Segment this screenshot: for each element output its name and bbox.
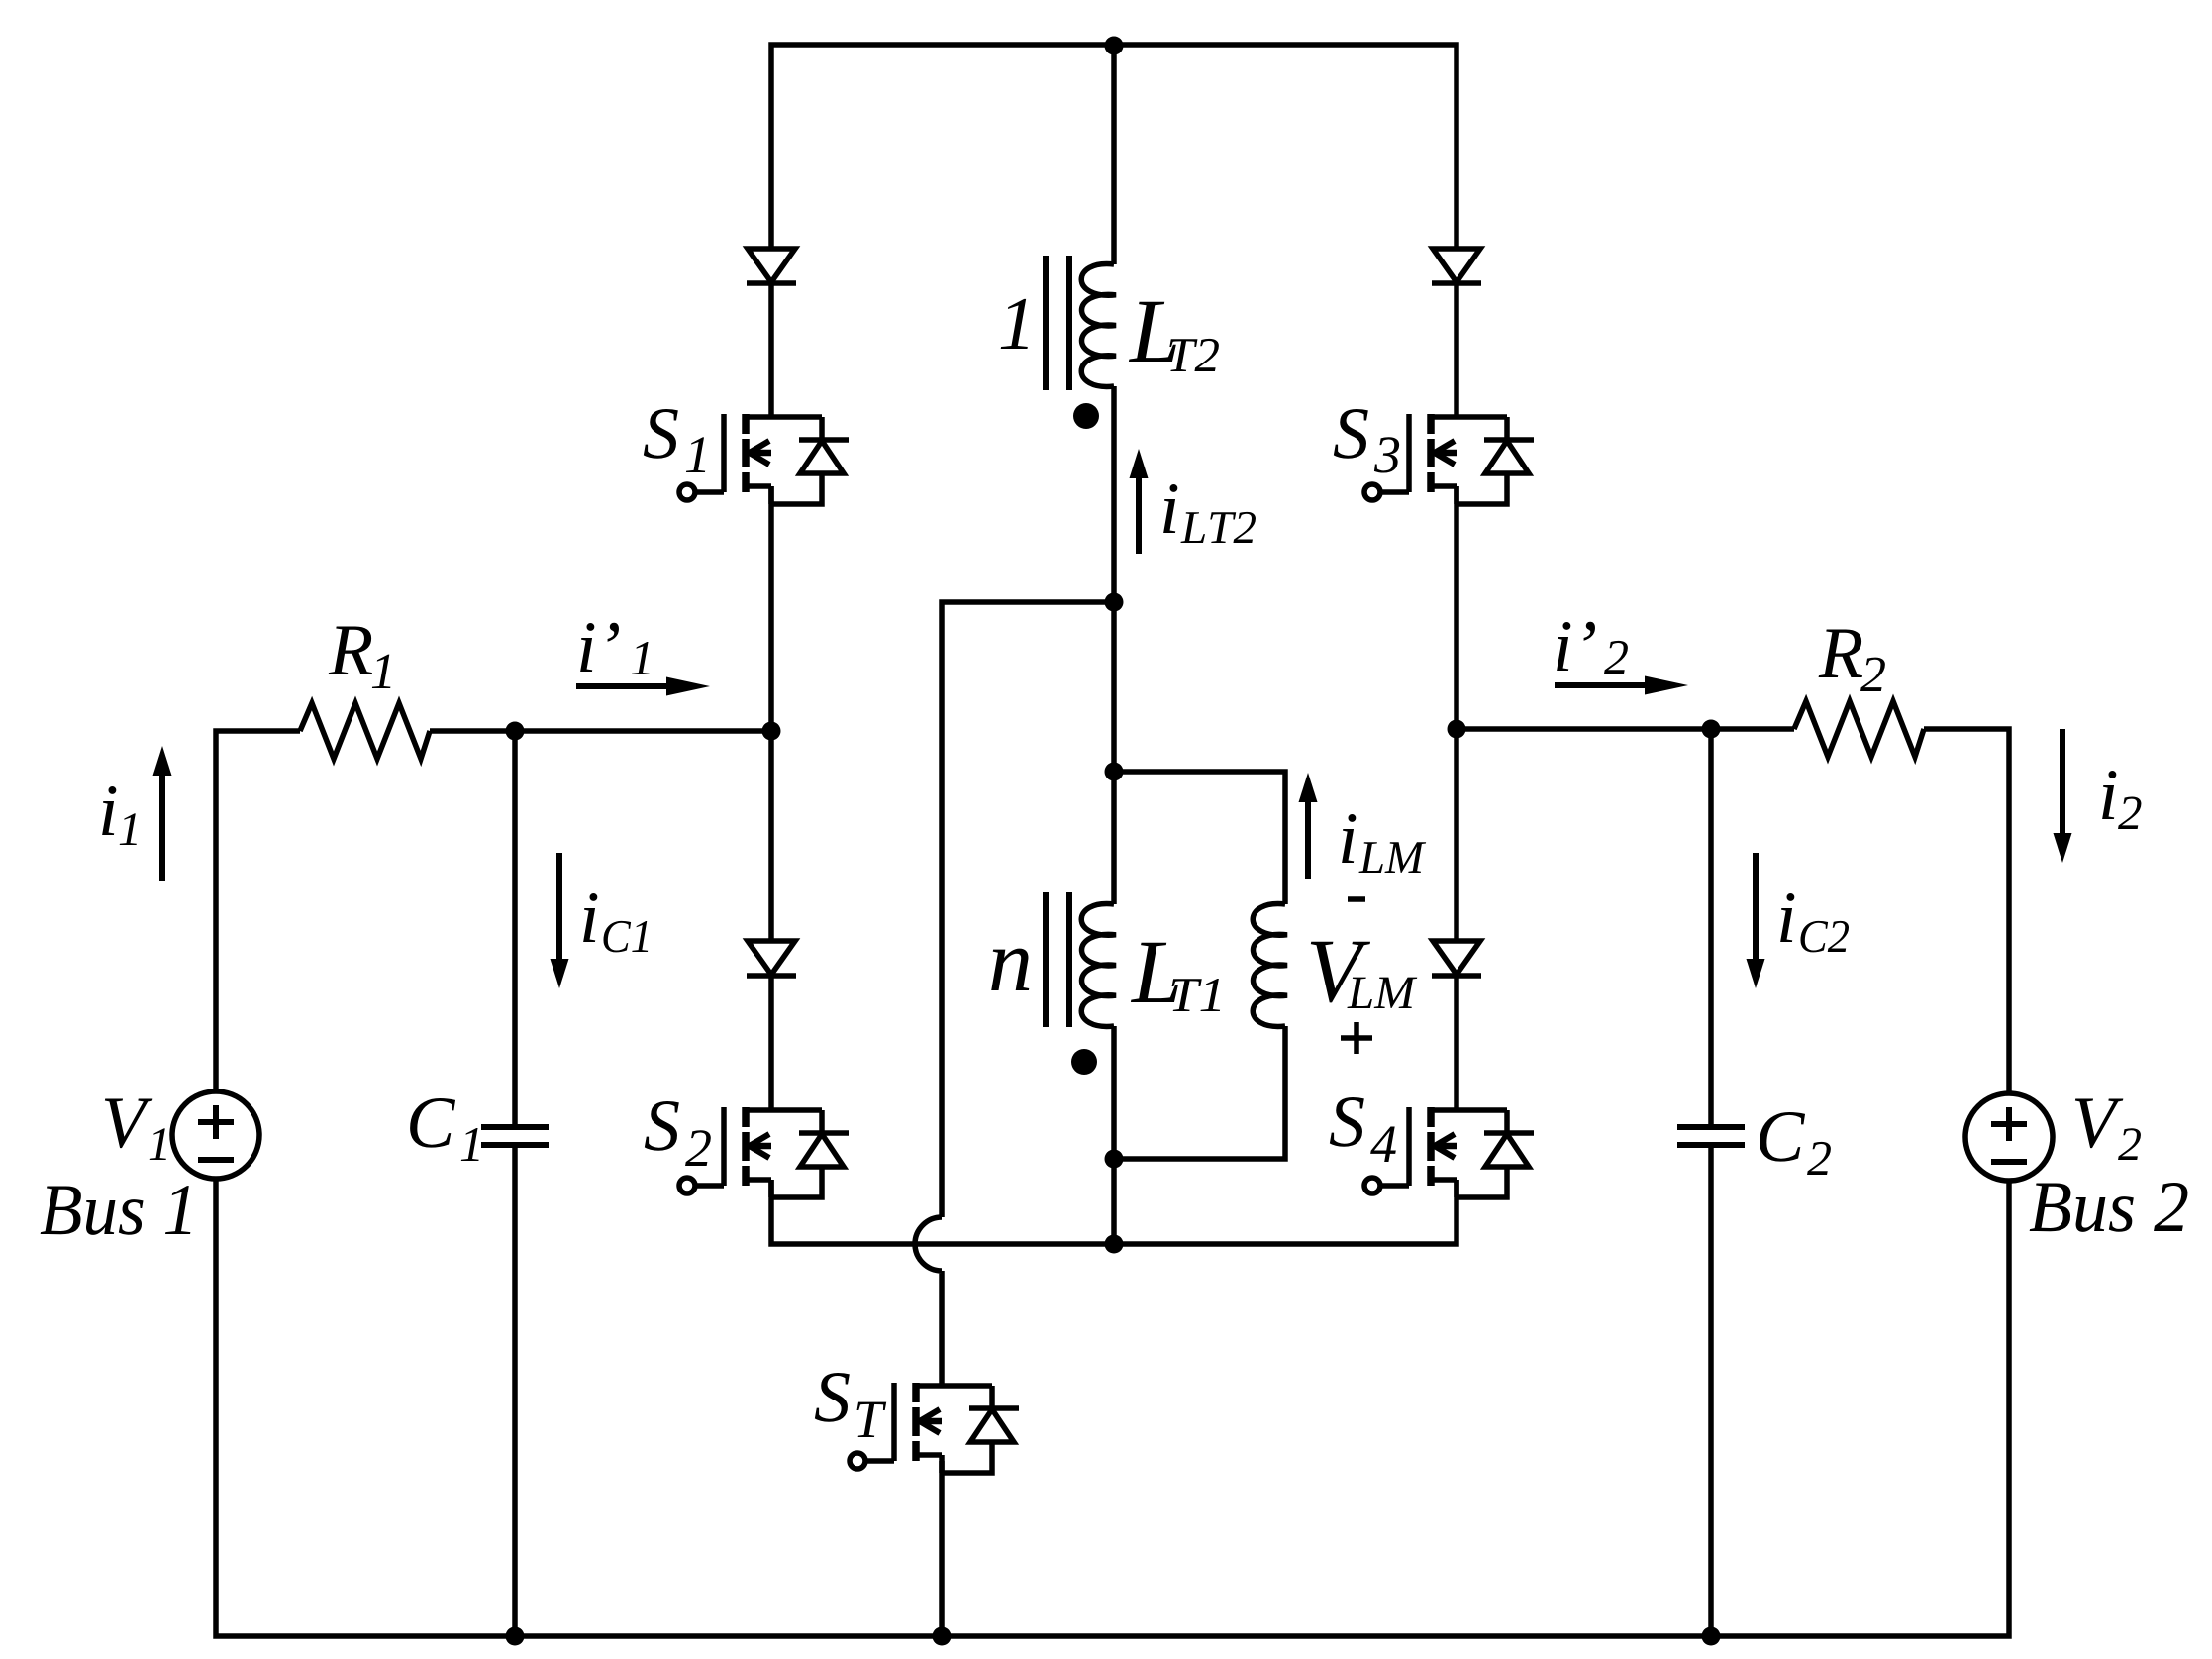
label i1: [102, 786, 137, 845]
inductor LM coil: [1253, 904, 1287, 1027]
voltage source V1: [172, 1091, 259, 1179]
wire C2 branch upper: [1708, 729, 1714, 1127]
label C1: [410, 1098, 479, 1161]
MOSFET ST: [850, 1383, 1019, 1473]
wire center column LT2 to tap node to LM top node: [1111, 386, 1117, 904]
label iC2: [1780, 893, 1849, 952]
capacitor C1: [481, 1127, 549, 1145]
label V2: [2075, 1099, 2141, 1160]
label S3: [1334, 409, 1399, 473]
winding LT1 coil: [1081, 904, 1116, 1027]
label Bus 2: [2030, 1183, 2188, 1232]
arrow i'1: [576, 677, 710, 696]
label iLM: [1342, 814, 1426, 873]
label ST: [815, 1373, 886, 1437]
wire LM parallel branch bottom: [1114, 1026, 1285, 1159]
label i2: [2102, 771, 2141, 829]
wire S3-column between D3 and S3: [1454, 283, 1459, 417]
MOSFET S2: [679, 1107, 849, 1197]
winding LT1 core bars: [1046, 892, 1069, 1027]
label Bus 1: [41, 1186, 191, 1235]
diode D2: [747, 941, 796, 976]
MOSFET S1: [679, 414, 849, 504]
label S2: [645, 1101, 711, 1166]
label R1: [329, 627, 391, 688]
label S1: [644, 409, 705, 472]
label n: [991, 949, 1029, 990]
label ratio 1: [1001, 299, 1028, 349]
arrow iLT2: [1130, 449, 1149, 554]
diode D4: [1432, 941, 1481, 976]
capacitor C2: [1677, 1127, 1745, 1145]
node LM bottom junction: [1105, 1150, 1124, 1169]
node ST bottom junction: [933, 1627, 952, 1646]
label C2: [1760, 1112, 1831, 1175]
wire top rail with drops to D1 and D3: [771, 45, 1457, 249]
wire C1 branch lower: [512, 1145, 518, 1636]
arrow iLM: [1299, 773, 1318, 879]
diode D3: [1432, 249, 1481, 283]
node LM top junction: [1105, 763, 1124, 781]
label LT1: [1131, 943, 1220, 1011]
wire mid rail S2-bottom to S4-bottom: [771, 1180, 1457, 1244]
label iLT2: [1163, 484, 1256, 543]
winding LT2 polarity dot: [1073, 403, 1099, 429]
wire center column top rail to LT2: [1111, 45, 1117, 264]
winding LT2 core bars: [1046, 256, 1069, 390]
wire D4 to S4: [1454, 976, 1459, 1110]
arrow iC2: [1747, 853, 1765, 988]
label VLM plus: [1341, 1022, 1372, 1054]
resistor R2: [1794, 701, 1924, 757]
label V1: [105, 1099, 166, 1160]
arrow i'2: [1555, 676, 1688, 695]
node C1 bottom junction: [506, 1627, 525, 1646]
wire right rail node to R2: [1457, 726, 1794, 732]
MOSFET S3: [1364, 414, 1534, 504]
arrow i1: [153, 746, 172, 881]
node C1 top junction: [506, 722, 525, 741]
node i'1 junction: [762, 722, 781, 741]
label iC1: [583, 893, 648, 952]
node top-center junction: [1105, 37, 1124, 55]
node C2 bottom junction: [1702, 1627, 1721, 1646]
winding LT2 coil: [1081, 264, 1116, 387]
wire bottom rail with V1/V2 risers: [216, 1179, 2009, 1636]
wire S3 bottom to node i'2 to D4: [1454, 486, 1459, 941]
label S4: [1330, 1097, 1396, 1162]
wire R2 to V2 corner: [1924, 729, 2009, 1093]
voltage source V2: [1965, 1093, 2053, 1181]
label i'1: [580, 623, 650, 674]
wire ST bottom to bottom rail: [939, 1461, 945, 1636]
winding LT1 polarity dot: [1071, 1049, 1097, 1075]
label R2: [1819, 630, 1885, 691]
node i'2 junction: [1448, 720, 1466, 739]
wire C1 branch upper: [512, 731, 518, 1127]
node C2 top junction: [1702, 720, 1721, 739]
wire S1 bottom to node i'1 to D2: [768, 486, 774, 941]
wire S1-column between D1 and S1: [768, 283, 774, 417]
wire LM parallel branch top: [1114, 772, 1285, 904]
wire D2 to S2: [768, 976, 774, 1110]
arrow i2: [2054, 729, 2072, 863]
diode D1: [747, 249, 796, 283]
wire center tap to ST column with hop over mid rail: [915, 602, 1114, 1386]
MOSFET S4: [1364, 1107, 1534, 1197]
wire left rail V1-corner to R1: [216, 731, 300, 1091]
label VLM minus: [1348, 896, 1365, 902]
label i'2: [1557, 622, 1628, 674]
wire center column LT1 bottom to LM bottom node to mid rail: [1111, 1026, 1117, 1244]
label LT2: [1129, 302, 1219, 371]
wire C2 branch lower: [1708, 1145, 1714, 1636]
node tap junction: [1105, 593, 1124, 612]
wire R1 to node i'1: [430, 728, 771, 734]
arrow iC1: [551, 853, 569, 988]
label VLM: [1311, 942, 1417, 1008]
resistor R1: [300, 703, 430, 759]
node mid-rail center junction: [1105, 1235, 1124, 1254]
